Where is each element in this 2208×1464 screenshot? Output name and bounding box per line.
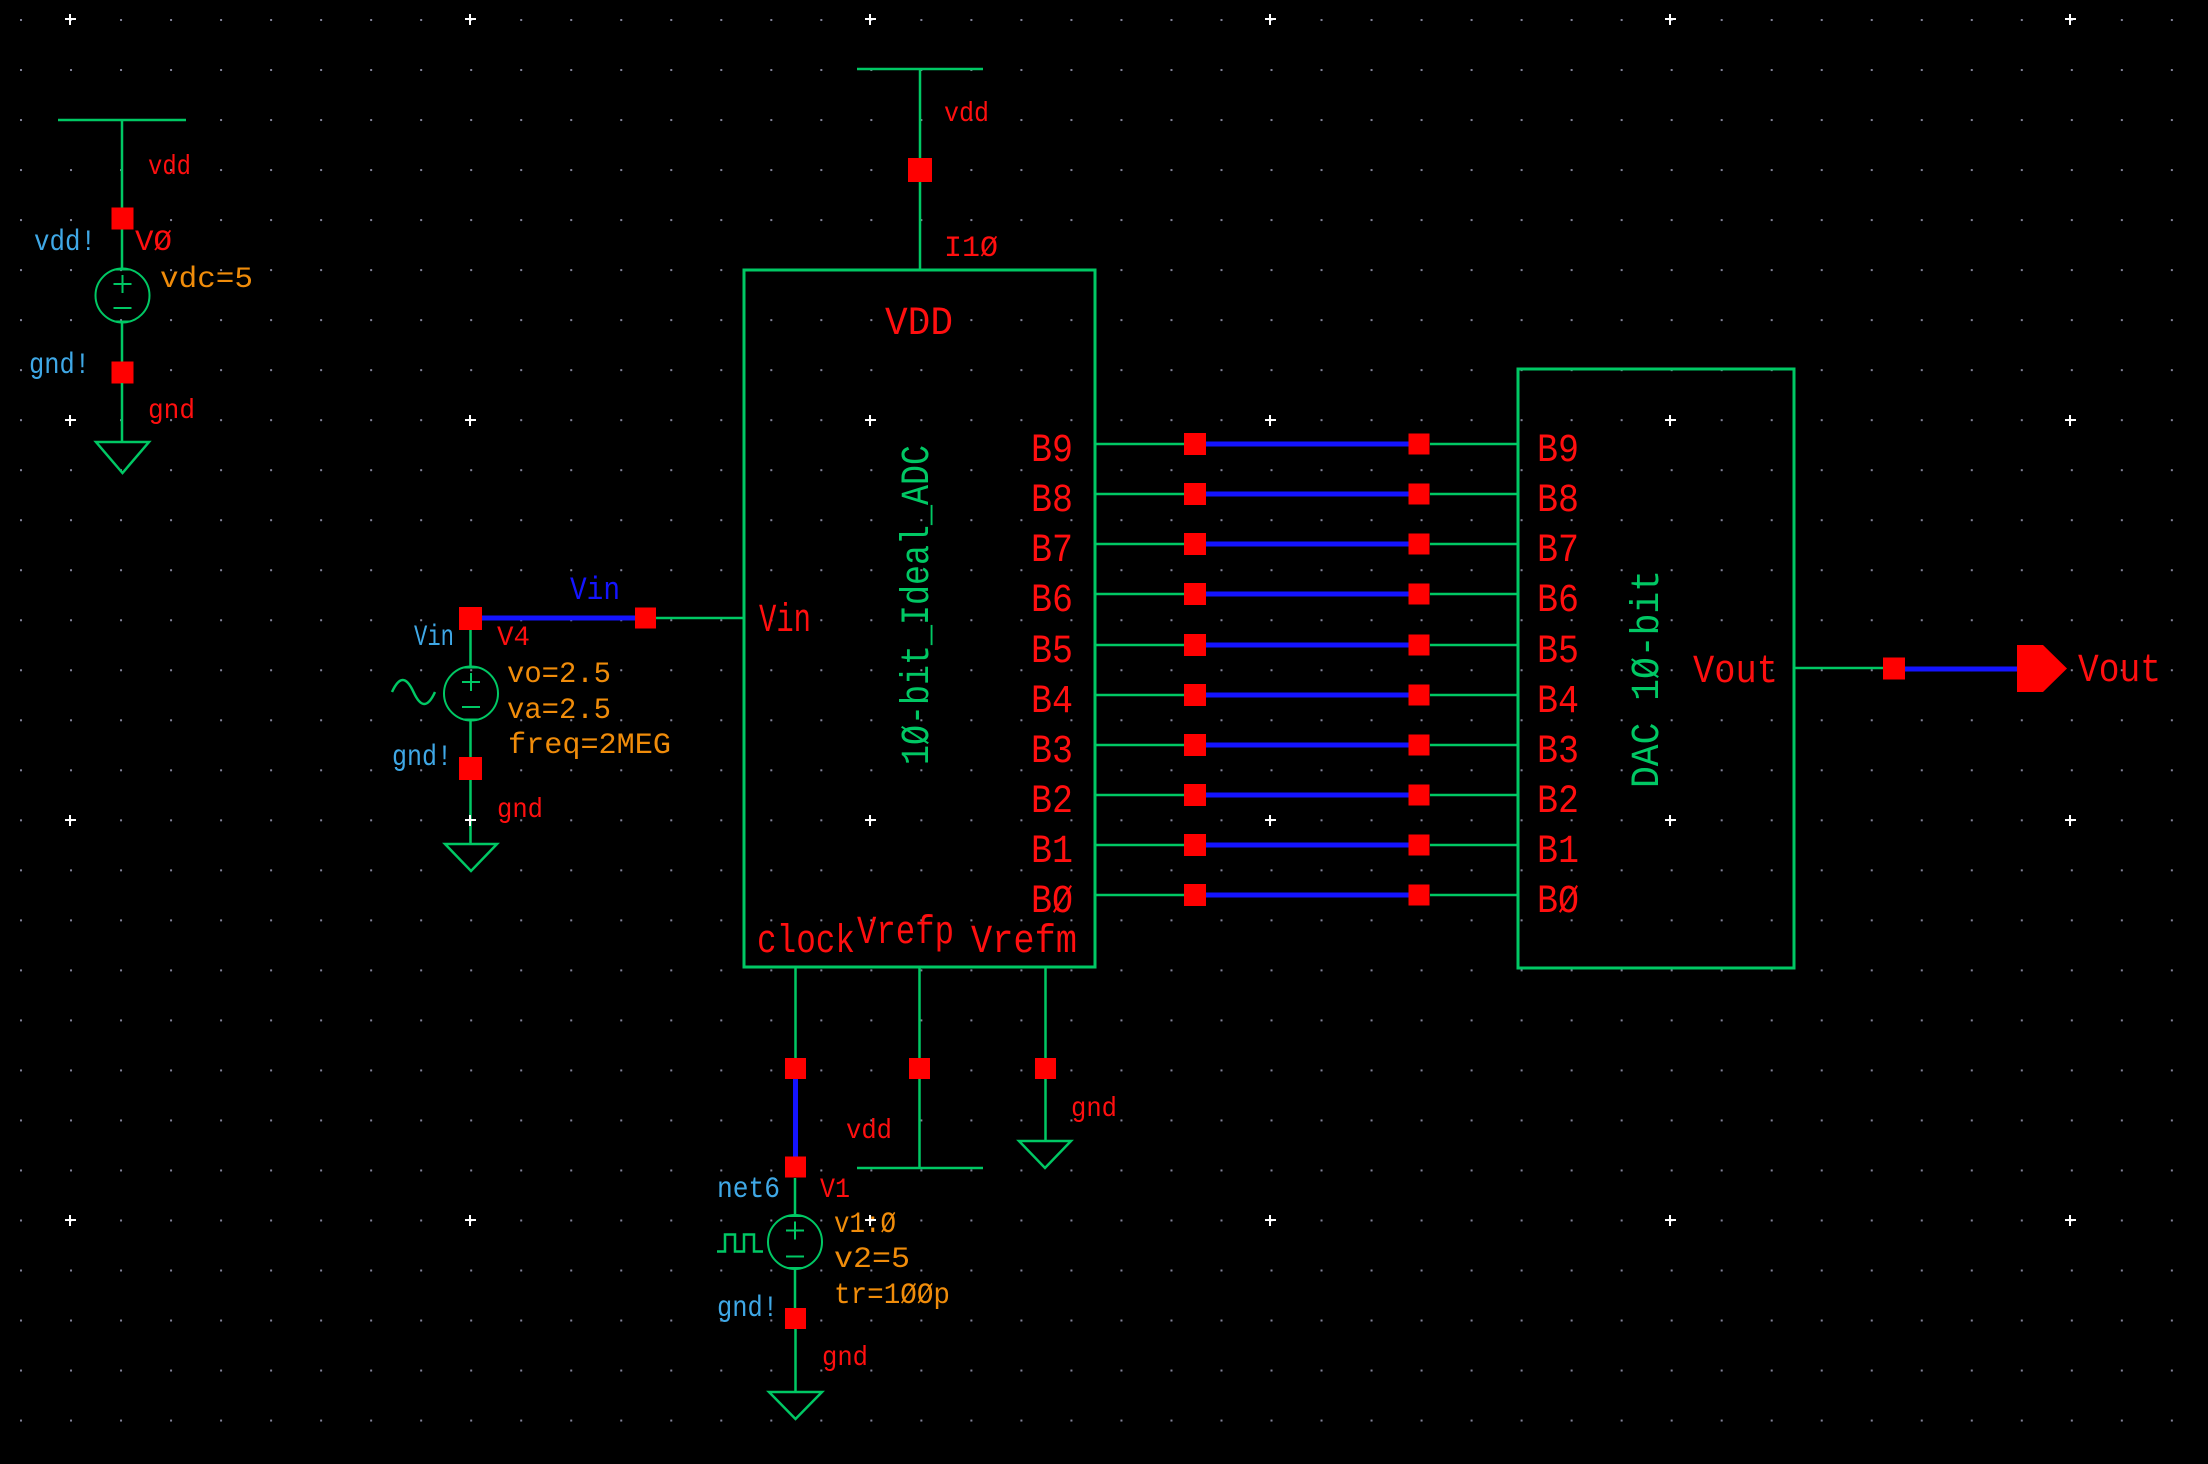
svg-text:vdd: vdd <box>148 152 191 183</box>
pin square B4 (ADC side) <box>1184 684 1206 706</box>
net wire B8 (bus bit) <box>1206 492 1409 497</box>
wire Vrefp to vdd rail <box>918 1079 921 1168</box>
vdd power rail (V0) <box>58 120 186 268</box>
pin square B6 (DAC side) <box>1409 584 1430 605</box>
wire to ground symbol (V1) <box>794 1329 797 1393</box>
ground symbol (Vrefm) <box>1019 1141 1071 1168</box>
pin square B2 (DAC side) <box>1409 785 1430 806</box>
svg-text:V1: V1 <box>820 1175 850 1206</box>
pin square B5 (DAC side) <box>1409 635 1430 656</box>
svg-text:B5: B5 <box>1537 630 1579 675</box>
ADC pin B9 stub wire <box>1095 443 1184 446</box>
svg-text:Vin: Vin <box>570 572 620 609</box>
pin square B1 (DAC side) <box>1409 835 1430 856</box>
net wire B5 (bus bit) <box>1206 643 1409 648</box>
svg-text:B3: B3 <box>1537 730 1579 775</box>
block DAC 10-bit body <box>1518 369 1794 968</box>
svg-text:vdc=5: vdc=5 <box>160 263 253 297</box>
svg-text:freq=2MEG: freq=2MEG <box>508 729 671 763</box>
pin square net6 (V1 plus) <box>785 1157 806 1178</box>
svg-text:V4: V4 <box>497 623 530 654</box>
svg-text:VDD: VDD <box>885 302 953 347</box>
DAC pin B7 stub wire <box>1430 543 1518 546</box>
pin square Vin (V4 plus) <box>459 607 482 630</box>
svg-text:I1Ø: I1Ø <box>944 232 998 266</box>
svg-text:v2=5: v2=5 <box>834 1243 910 1277</box>
net wire BØ (bus bit) <box>1206 893 1409 898</box>
svg-text:B9: B9 <box>1031 429 1073 474</box>
wire V1 plus stem <box>794 1178 797 1216</box>
svg-text:BØ: BØ <box>1031 880 1073 925</box>
wire V1 minus stem <box>794 1268 797 1309</box>
svg-text:Vin: Vin <box>414 621 454 655</box>
svg-text:B8: B8 <box>1537 479 1579 524</box>
op block U-I10: 10-bit Ideal ADC body <box>744 270 1095 967</box>
svg-text:B2: B2 <box>1031 780 1073 825</box>
svg-text:B3: B3 <box>1031 730 1073 775</box>
svg-text:B6: B6 <box>1031 579 1073 624</box>
net wire Vin (blue) <box>482 616 635 621</box>
svg-text:B4: B4 <box>1031 680 1073 725</box>
wire V0 minus to gnd pin <box>121 322 124 363</box>
svg-text:vdd: vdd <box>944 99 989 130</box>
pin square BØ (DAC side) <box>1409 885 1430 906</box>
ADC pin B5 stub wire <box>1095 644 1184 647</box>
voltage source V1 (vpulse) <box>768 1215 822 1269</box>
ADC pin B2 stub wire <box>1095 794 1184 797</box>
pulse symbol of V1 <box>717 1235 763 1252</box>
svg-text:tr=1ØØp: tr=1ØØp <box>834 1279 950 1313</box>
pin square B9 (DAC side) <box>1409 434 1430 455</box>
svg-text:net6: net6 <box>717 1173 780 1207</box>
ADC pin B7 stub wire <box>1095 543 1184 546</box>
svg-text:vdd: vdd <box>846 1116 892 1147</box>
svg-text:B7: B7 <box>1537 529 1579 574</box>
ADC pin B6 stub wire <box>1095 593 1184 596</box>
svg-text:Vout: Vout <box>2078 649 2161 694</box>
pin square B5 (ADC side) <box>1184 634 1206 656</box>
DAC pin B1 stub wire <box>1430 844 1518 847</box>
pin square B2 (ADC side) <box>1184 784 1206 806</box>
wire to ground symbol <box>121 383 124 443</box>
svg-text:B1: B1 <box>1031 830 1073 875</box>
svg-text:gnd: gnd <box>822 1343 868 1374</box>
svg-text:BØ: BØ <box>1537 880 1579 925</box>
pin square B7 (ADC side) <box>1184 533 1206 555</box>
ground symbol (V1) <box>769 1392 822 1419</box>
ground symbol (V4) <box>445 844 497 871</box>
DAC pin B8 stub wire <box>1430 493 1518 496</box>
svg-text:B7: B7 <box>1031 529 1073 574</box>
wire Vout <box>1794 667 1883 670</box>
svg-text:gnd: gnd <box>1071 1094 1117 1125</box>
svg-text:B1: B1 <box>1537 830 1579 875</box>
svg-text:Vrefp: Vrefp <box>857 911 954 956</box>
svg-text:Vin: Vin <box>759 599 811 644</box>
vdd power rail (I10 supply) <box>857 69 983 270</box>
DAC pin B4 stub wire <box>1430 694 1518 697</box>
ADC pin B1 stub wire <box>1095 844 1184 847</box>
ADC pin B8 stub wire <box>1095 493 1184 496</box>
pin square gnd! (V1 minus) <box>785 1308 806 1329</box>
net wire B1 (bus bit) <box>1206 843 1409 848</box>
svg-text:v1:Ø: v1:Ø <box>834 1208 896 1242</box>
svg-text:B8: B8 <box>1031 479 1073 524</box>
net wire B2 (bus bit) <box>1206 793 1409 798</box>
sine symbol of V4 <box>392 680 435 704</box>
svg-text:1Ø-bit_Ideal_ADC: 1Ø-bit_Ideal_ADC <box>896 445 941 765</box>
svg-text:gnd: gnd <box>148 396 195 427</box>
wire Vrefm to ground <box>1044 1079 1047 1142</box>
pin square Vout <box>1883 658 1905 680</box>
net wire Vout (blue) <box>1905 667 2018 672</box>
DAC pin B3 stub wire <box>1430 744 1518 747</box>
svg-text:VØ: VØ <box>135 226 172 260</box>
pin square B3 (DAC side) <box>1409 735 1430 756</box>
svg-text:clock: clock <box>757 920 855 965</box>
DAC pin B2 stub wire <box>1430 794 1518 797</box>
svg-text:B9: B9 <box>1537 429 1579 474</box>
svg-text:gnd!: gnd! <box>392 741 452 775</box>
svg-text:B4: B4 <box>1537 680 1579 725</box>
wire Vrefm pin stub <box>1044 967 1047 1059</box>
svg-text:va=2.5: va=2.5 <box>507 694 611 728</box>
net wire B3 (bus bit) <box>1206 743 1409 748</box>
voltage source V4 (vsin) <box>444 667 498 721</box>
pin square clock <box>785 1058 806 1079</box>
net wire net6 (blue) <box>793 1079 798 1157</box>
wire Vin into ADC <box>656 617 744 620</box>
pin square Vrefp <box>909 1058 930 1079</box>
DAC pin BØ stub wire <box>1430 894 1518 897</box>
pin square B9 (ADC side) <box>1184 433 1206 455</box>
pin square gnd! (V0 minus terminal) <box>112 362 134 384</box>
wire Vrefp pin stub <box>918 967 921 1059</box>
svg-text:vdd!: vdd! <box>34 226 96 260</box>
ADC pin BØ stub wire <box>1095 894 1184 897</box>
DAC pin B9 stub wire <box>1430 443 1518 446</box>
net wire B6 (bus bit) <box>1206 592 1409 597</box>
DAC pin B6 stub wire <box>1430 593 1518 596</box>
ground symbol (V0) <box>96 442 149 473</box>
pin square VDD of I10 <box>908 158 932 182</box>
pin square B8 (DAC side) <box>1409 484 1430 505</box>
vdd power rail (Vrefp) <box>857 1167 983 1170</box>
pin square vdd! (V0 plus terminal) <box>112 208 134 230</box>
wire V4 plus stem <box>469 630 472 667</box>
pin square B8 (ADC side) <box>1184 483 1206 505</box>
svg-text:DAC 1Ø-bit: DAC 1Ø-bit <box>1626 570 1671 788</box>
svg-text:Vrefm: Vrefm <box>971 920 1077 965</box>
wire to ground symbol (V4) <box>469 780 472 845</box>
net wire B4 (bus bit) <box>1206 693 1409 698</box>
wire V4 minus stem <box>469 720 472 757</box>
svg-text:Vout: Vout <box>1693 650 1778 695</box>
pin square Vrefm <box>1035 1058 1056 1079</box>
pin square gnd! (V4 minus) <box>459 757 482 780</box>
wire clock pin stub <box>794 967 797 1059</box>
svg-text:gnd: gnd <box>497 795 543 826</box>
ADC pin B3 stub wire <box>1095 744 1184 747</box>
pin square B6 (ADC side) <box>1184 583 1206 605</box>
wire junction square Vin <box>635 608 656 629</box>
svg-text:gnd!: gnd! <box>29 349 90 383</box>
pin square B4 (DAC side) <box>1409 685 1430 706</box>
ADC pin B4 stub wire <box>1095 694 1184 697</box>
svg-text:gnd!: gnd! <box>717 1292 778 1326</box>
net wire B7 (bus bit) <box>1206 542 1409 547</box>
pin square B7 (DAC side) <box>1409 534 1430 555</box>
output port symbol Vout <box>2017 645 2067 692</box>
net wire B9 (bus bit) <box>1206 442 1409 447</box>
DAC pin B5 stub wire <box>1430 644 1518 647</box>
voltage source V0 (vdc=5) <box>96 269 150 323</box>
svg-text:B2: B2 <box>1537 780 1579 825</box>
pin square B3 (ADC side) <box>1184 734 1206 756</box>
svg-text:vo=2.5: vo=2.5 <box>507 658 611 692</box>
pin square BØ (ADC side) <box>1184 884 1206 906</box>
pin square B1 (ADC side) <box>1184 834 1206 856</box>
svg-text:B6: B6 <box>1537 579 1579 624</box>
svg-text:B5: B5 <box>1031 630 1073 675</box>
